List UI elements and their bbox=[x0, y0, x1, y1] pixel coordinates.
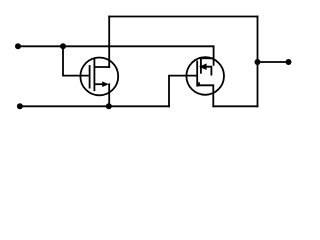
wire right gate feed bbox=[169, 76, 196, 107]
Q2 circle envelope bbox=[186, 57, 224, 95]
wire right vertical rail bbox=[257, 17, 259, 107]
wire left drain vertical bbox=[108, 17, 110, 68]
node dot junction right rail bbox=[255, 59, 261, 65]
transistor Q1 (left MOSFET) bbox=[80, 58, 118, 96]
wire right output stub bbox=[258, 61, 289, 63]
Q1 channel bar bbox=[93, 60, 95, 90]
wire top rail bbox=[109, 16, 257, 18]
Q2 arrow head (points left) bbox=[199, 63, 207, 70]
Q1 circle envelope bbox=[80, 58, 118, 96]
Q1 gate bar bbox=[89, 66, 91, 88]
wire bottom left rail bbox=[20, 105, 169, 107]
Q2 drain elbow bbox=[201, 57, 214, 59]
wire right drain drop bbox=[213, 46, 215, 65]
Q1 arrow head (points right) bbox=[102, 81, 109, 87]
Q1 drain elbow bbox=[94, 66, 109, 68]
node dot terminal lower-left bbox=[17, 103, 23, 109]
wire left source drop bbox=[108, 84, 110, 106]
Q2 source elbow bbox=[199, 85, 213, 106]
wire left gate feed bbox=[63, 46, 88, 75]
node dot terminal right bbox=[286, 59, 292, 65]
node dot terminal upper-left bbox=[15, 43, 21, 49]
node dot junction upper-left bbox=[60, 43, 66, 49]
node dot junction below Q1 bbox=[106, 103, 112, 109]
wire bottom right segment bbox=[213, 105, 257, 107]
Q2 channel bar lower segment bbox=[198, 83, 200, 85]
Q1 bulk/source line bbox=[94, 83, 102, 85]
Q2 gate bar bbox=[196, 62, 198, 86]
Q2 channel bar upper segment bbox=[200, 58, 202, 73]
transistor Q2 (right MOSFET) bbox=[186, 57, 224, 106]
Q2 bulk line bbox=[206, 67, 212, 75]
wire upper-left rail bbox=[18, 45, 214, 47]
